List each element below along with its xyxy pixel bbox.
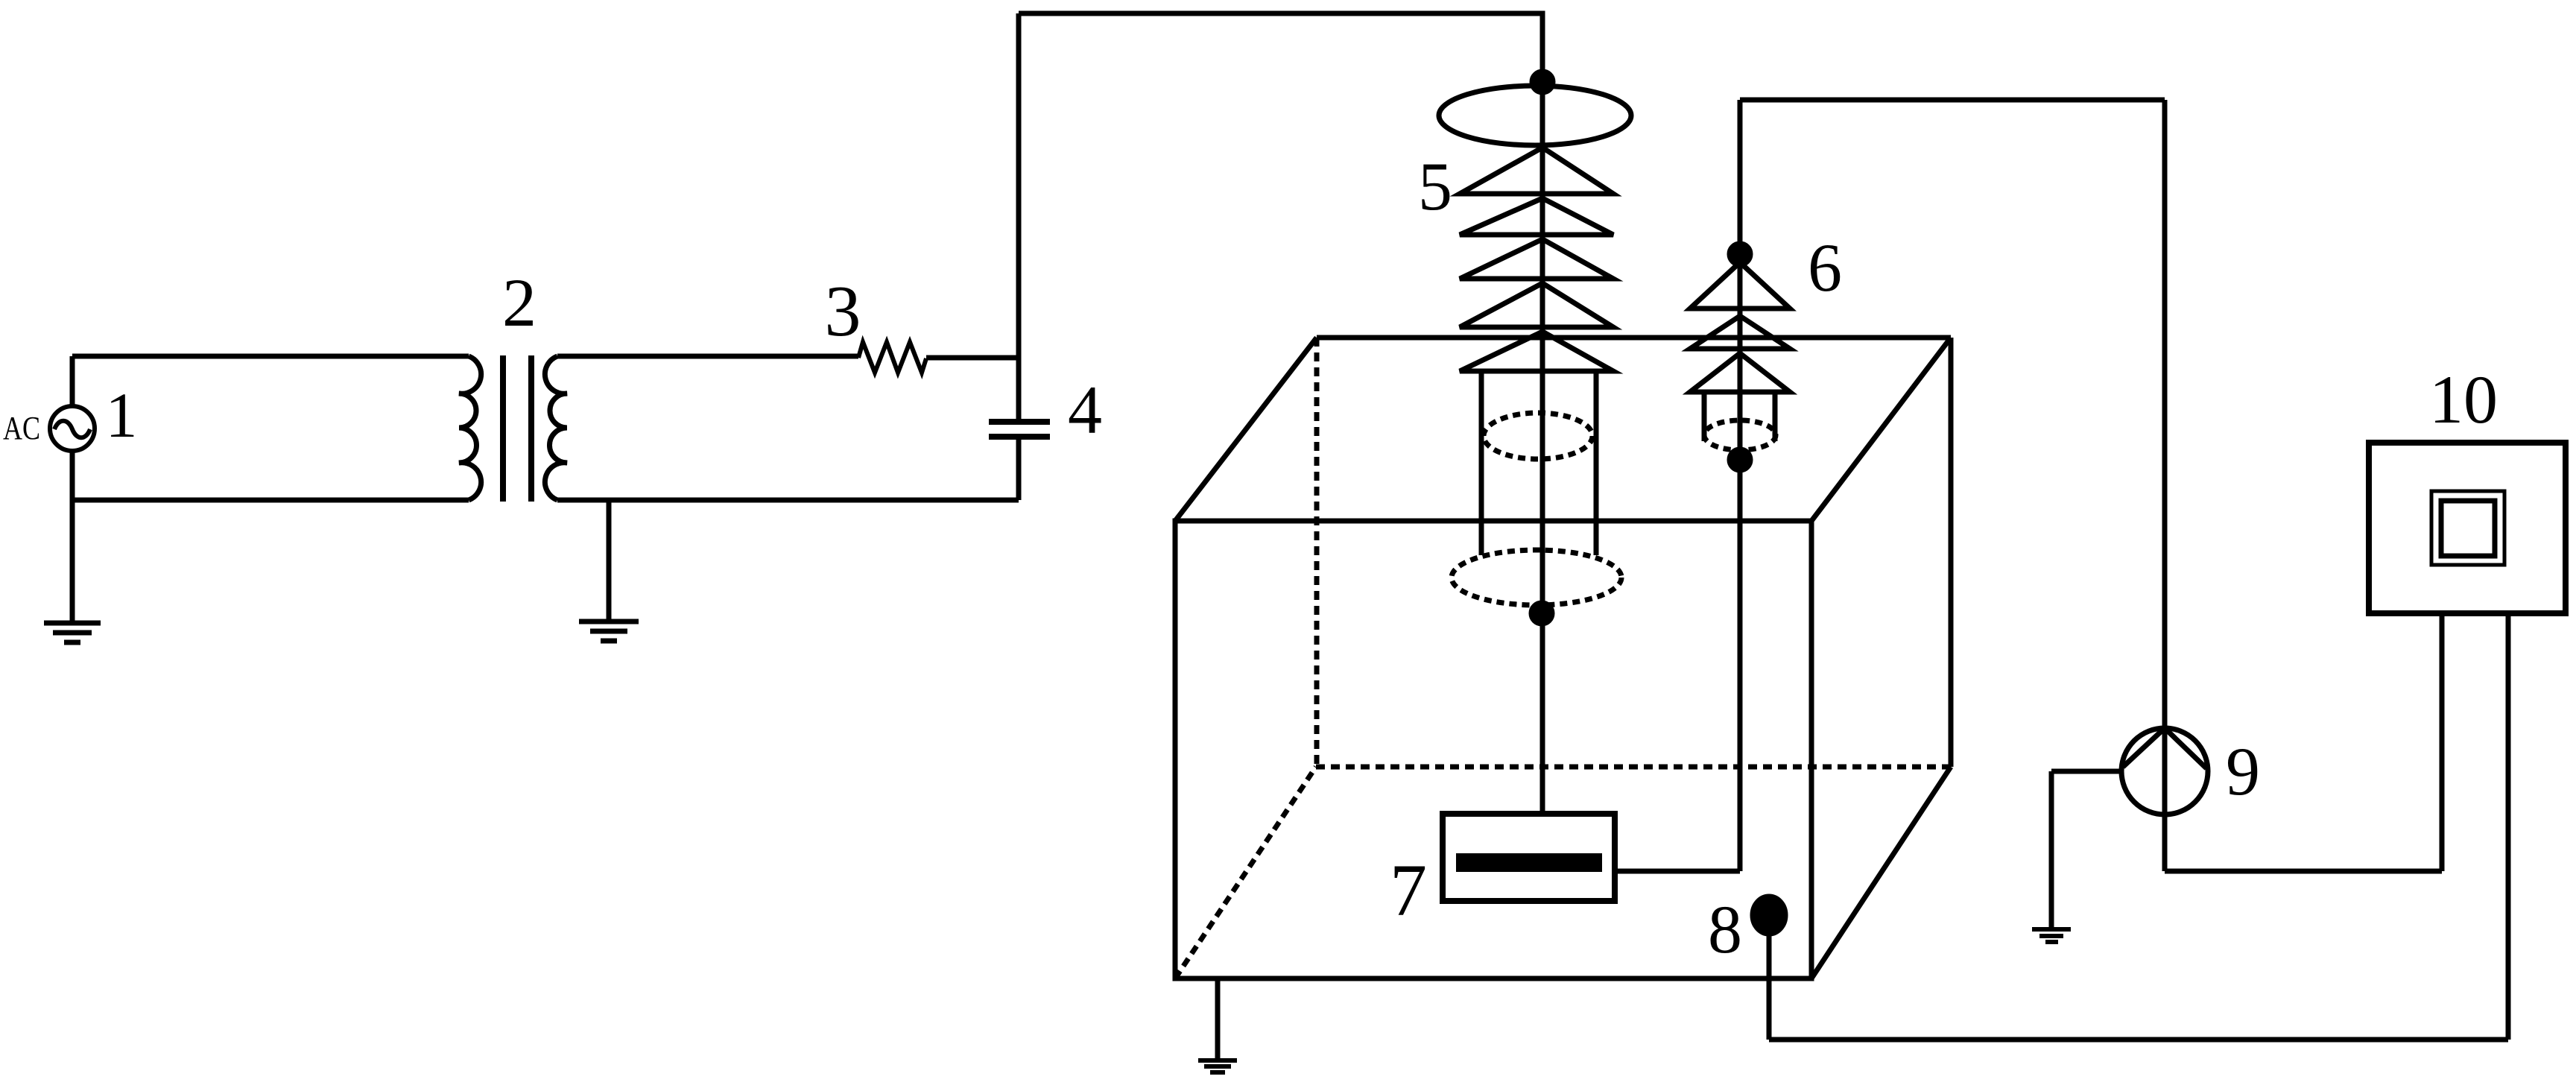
svg-text:7: 7: [1390, 849, 1427, 932]
svg-text:1: 1: [106, 379, 138, 451]
svg-text:6: 6: [1808, 230, 1842, 306]
svg-text:AC: AC: [3, 410, 40, 446]
svg-text:8: 8: [1708, 891, 1742, 967]
svg-text:4: 4: [1068, 372, 1102, 448]
svg-text:5: 5: [1418, 148, 1452, 224]
svg-text:3: 3: [825, 271, 861, 352]
svg-text:10: 10: [2429, 361, 2498, 437]
svg-text:2: 2: [502, 265, 537, 341]
svg-text:9: 9: [2226, 733, 2260, 809]
